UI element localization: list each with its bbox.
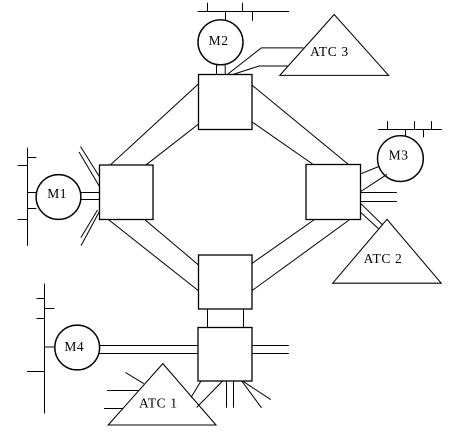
- svg-text:M3: M3: [389, 148, 409, 163]
- svg-text:ATC 3: ATC 3: [310, 44, 349, 59]
- svg-text:M4: M4: [64, 339, 84, 354]
- svg-text:ATC 2: ATC 2: [364, 251, 403, 266]
- svg-text:M2: M2: [209, 33, 229, 48]
- svg-text:M1: M1: [47, 186, 67, 201]
- svg-text:ATC 1: ATC 1: [139, 396, 178, 411]
